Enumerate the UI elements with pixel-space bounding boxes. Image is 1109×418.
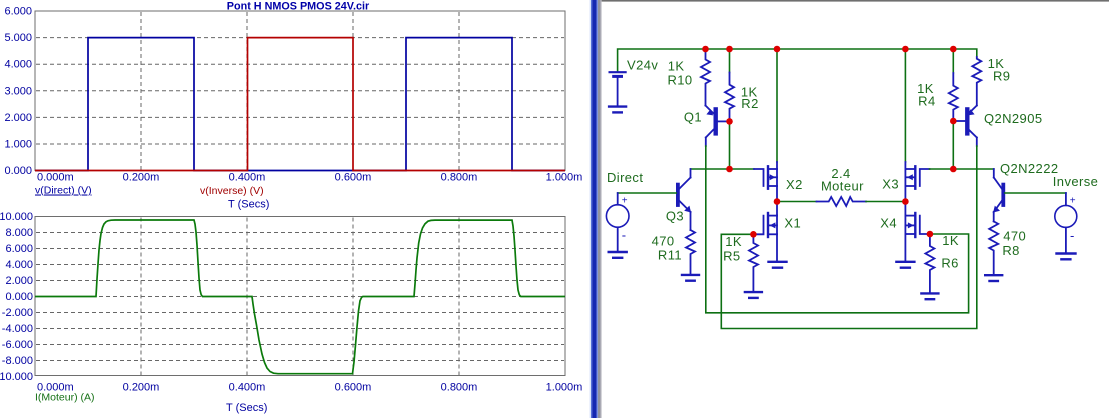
label X2 bbox=[786, 177, 803, 192]
transistor Q3 (NPN) bbox=[678, 169, 691, 230]
label Q2N2905 bbox=[984, 111, 1042, 126]
svg-text:R11: R11 bbox=[658, 248, 682, 263]
mosfet X2 (PMOS) bbox=[754, 162, 777, 202]
svg-text:0.400m: 0.400m bbox=[229, 382, 266, 394]
ground (Inverse source) bbox=[1057, 254, 1076, 260]
svg-text:X1: X1 bbox=[784, 216, 801, 231]
v(Direct) blue trace bbox=[35, 38, 565, 171]
label R9 bbox=[993, 69, 1010, 84]
label Q1 bbox=[684, 110, 702, 125]
svg-text:0.400m: 0.400m bbox=[229, 172, 266, 184]
svg-text:Moteur: Moteur bbox=[821, 178, 864, 193]
label R10 bbox=[667, 73, 692, 88]
resistor R8 bbox=[989, 221, 998, 274]
bottom plot x labels bbox=[37, 382, 582, 394]
resistor R2 bbox=[725, 49, 734, 121]
wire Direct source to Q3 base bbox=[618, 192, 677, 194]
svg-text:4.000: 4.000 bbox=[5, 259, 33, 271]
svg-text:R2: R2 bbox=[741, 96, 758, 111]
resistor R9 bbox=[972, 57, 981, 106]
resistor R5 bbox=[749, 234, 758, 291]
mosfet X3 (PMOS) bbox=[905, 162, 929, 202]
node rail-X2 bbox=[774, 46, 781, 53]
label R2 bbox=[741, 96, 758, 111]
ground (R8) bbox=[985, 275, 1002, 281]
ground (R5) bbox=[745, 292, 762, 298]
svg-text:T (Secs): T (Secs) bbox=[226, 402, 267, 414]
wire cross-couple A: Q1 collector to X4 gate bbox=[706, 146, 969, 313]
svg-text:1.000m: 1.000m bbox=[546, 172, 583, 184]
source Direct bbox=[606, 193, 629, 251]
svg-text:-2.000: -2.000 bbox=[2, 307, 33, 319]
svg-text:R9: R9 bbox=[993, 69, 1010, 84]
ground (R11) bbox=[682, 275, 699, 281]
node rail-R4 bbox=[950, 46, 957, 53]
svg-text:v(Direct) (V): v(Direct) (V) bbox=[35, 185, 92, 197]
I(Moteur) green trace bbox=[35, 220, 565, 374]
resistor R11 bbox=[686, 230, 695, 274]
svg-text:4.000: 4.000 bbox=[4, 59, 32, 71]
transistor Q2N2905 (PNP) bbox=[953, 106, 977, 147]
node right driver bbox=[950, 166, 957, 173]
label X4 bbox=[880, 216, 897, 231]
wire motor node left bbox=[777, 201, 817, 203]
svg-text:R5: R5 bbox=[723, 249, 740, 264]
top plot h gridlines bbox=[36, 38, 564, 144]
svg-text:-4.000: -4.000 bbox=[2, 323, 33, 335]
label R4 bbox=[918, 94, 935, 109]
svg-text:0.600m: 0.600m bbox=[335, 172, 372, 184]
svg-text:V24v: V24v bbox=[627, 58, 658, 73]
label Q2N2222 bbox=[1000, 161, 1058, 176]
svg-text:0.200m: 0.200m bbox=[123, 172, 160, 184]
source Inverse bbox=[1055, 193, 1077, 252]
label Q3 bbox=[666, 209, 684, 224]
svg-text:470: 470 bbox=[652, 234, 675, 249]
svg-text:Q2N2222: Q2N2222 bbox=[1000, 161, 1058, 176]
label 1K (R6) bbox=[942, 233, 959, 248]
svg-text:0.800m: 0.800m bbox=[441, 172, 478, 184]
svg-text:T (Secs): T (Secs) bbox=[228, 199, 269, 211]
node motor right bbox=[902, 198, 909, 205]
svg-text:1.000m: 1.000m bbox=[546, 382, 583, 394]
wire Q2N2905 base to driver node bbox=[952, 121, 954, 169]
svg-text:-: - bbox=[1070, 228, 1075, 243]
bottom plot frame bbox=[35, 217, 565, 376]
label R8 bbox=[1002, 243, 1019, 258]
resistor Moteur 2.4 bbox=[817, 197, 867, 206]
label Direct bbox=[607, 170, 643, 185]
mosfet X4 (NMOS) bbox=[905, 202, 930, 262]
wire X2 drain from rail bbox=[776, 49, 778, 162]
wire left driver node horizontal bbox=[691, 168, 755, 170]
svg-text:0.800m: 0.800m bbox=[441, 382, 478, 394]
svg-text:+: + bbox=[622, 195, 628, 206]
label Inverse bbox=[1053, 174, 1098, 189]
node left driver bbox=[726, 166, 733, 173]
node X1 gate bbox=[750, 231, 757, 238]
resistor R6 bbox=[925, 234, 934, 293]
ground (Direct source) bbox=[609, 252, 627, 258]
svg-text:-8.000: -8.000 bbox=[2, 355, 33, 367]
svg-text:2.000: 2.000 bbox=[5, 275, 33, 287]
svg-text:1K: 1K bbox=[942, 233, 959, 248]
label R5 bbox=[723, 249, 740, 264]
v(Inverse) red trace bbox=[35, 38, 565, 171]
wire Q1 base to driver node bbox=[729, 121, 731, 169]
svg-text:X3: X3 bbox=[882, 177, 899, 192]
transistor Q1 (PNP) bbox=[706, 106, 730, 147]
ground (R6) bbox=[921, 293, 938, 299]
wire Inverse source to Q2N2222 base bbox=[1005, 192, 1066, 194]
node X4 gate bbox=[927, 231, 934, 238]
wire right driver node horizontal bbox=[930, 168, 994, 170]
label V24v bbox=[627, 58, 658, 73]
svg-text:R10: R10 bbox=[667, 73, 692, 88]
svg-text:Q1: Q1 bbox=[684, 110, 702, 125]
svg-text:Q3: Q3 bbox=[666, 209, 684, 224]
svg-text:R4: R4 bbox=[918, 94, 935, 109]
svg-text:10.000: 10.000 bbox=[0, 211, 33, 223]
label 1K (R10) bbox=[668, 59, 685, 74]
svg-text:5.000: 5.000 bbox=[4, 32, 32, 44]
top plot y labels bbox=[4, 6, 32, 178]
transistor Q2N2222 (NPN) bbox=[993, 169, 1003, 221]
node rail-X3 bbox=[902, 46, 909, 53]
wire cross-couple B: Q2N2905 collector to X1 gate bbox=[721, 146, 977, 329]
node junction dots bbox=[702, 46, 956, 238]
svg-text:X4: X4 bbox=[880, 216, 897, 231]
svg-text:0.600m: 0.600m bbox=[335, 382, 372, 394]
label X1 bbox=[784, 216, 801, 231]
svg-text:0.000m: 0.000m bbox=[37, 172, 74, 184]
svg-text:I(Moteur) (A): I(Moteur) (A) bbox=[35, 392, 95, 404]
ground (X4 source) bbox=[896, 262, 914, 268]
ground (battery) bbox=[609, 107, 626, 113]
svg-text:10.000: 10.000 bbox=[0, 371, 33, 383]
label 470 (R11) bbox=[652, 234, 675, 249]
svg-text:3.000: 3.000 bbox=[4, 85, 32, 97]
wire top supply rail bbox=[618, 49, 977, 71]
label R11 bbox=[658, 248, 682, 263]
label 1K (R5) bbox=[725, 234, 742, 249]
node Q1 base bbox=[726, 118, 733, 125]
svg-text:1K: 1K bbox=[725, 234, 742, 249]
node rail-R2 bbox=[726, 46, 733, 53]
svg-text:0.200m: 0.200m bbox=[123, 382, 160, 394]
svg-text:0.000: 0.000 bbox=[4, 165, 32, 177]
svg-text:-6.000: -6.000 bbox=[2, 339, 33, 351]
top plot v gridlines bbox=[141, 12, 459, 170]
label Moteur bbox=[821, 178, 864, 193]
svg-text:v(Inverse) (V): v(Inverse) (V) bbox=[200, 185, 264, 197]
svg-text:470: 470 bbox=[1003, 229, 1026, 244]
bottom plot y labels bbox=[0, 211, 33, 383]
node motor left bbox=[774, 198, 781, 205]
resistor R10 bbox=[701, 49, 710, 106]
svg-text:Direct: Direct bbox=[607, 170, 643, 185]
svg-text:2.000: 2.000 bbox=[4, 112, 32, 124]
svg-text:Inverse: Inverse bbox=[1053, 174, 1098, 189]
svg-text:0.000: 0.000 bbox=[5, 291, 33, 303]
label 1K (R2) bbox=[741, 85, 758, 100]
svg-text:+: + bbox=[1070, 195, 1076, 206]
svg-text:8.000: 8.000 bbox=[5, 227, 33, 239]
top plot frame bbox=[35, 11, 565, 171]
svg-text:6.000: 6.000 bbox=[4, 6, 32, 18]
node Q2N2905 base bbox=[950, 118, 957, 125]
label 1K (R4) bbox=[917, 81, 934, 96]
label 2.4 bbox=[831, 166, 850, 181]
node rail-R10 bbox=[702, 46, 709, 53]
top plot x labels bbox=[37, 172, 582, 184]
svg-text:R8: R8 bbox=[1002, 243, 1019, 258]
bottom plot v gridlines bbox=[141, 218, 459, 376]
svg-text:R6: R6 bbox=[941, 256, 958, 271]
label X3 bbox=[882, 177, 899, 192]
svg-text:Q2N2905: Q2N2905 bbox=[984, 111, 1042, 126]
svg-text:6.000: 6.000 bbox=[5, 243, 33, 255]
label 1K (R9) bbox=[988, 56, 1005, 71]
mosfet X1 (NMOS) bbox=[753, 202, 777, 262]
resistor R4 bbox=[949, 49, 958, 121]
svg-text:-: - bbox=[622, 228, 627, 243]
wire motor node right bbox=[866, 201, 905, 203]
battery V24v bbox=[610, 72, 626, 105]
bottom plot h gridlines bbox=[36, 233, 564, 361]
label 470 (R8) bbox=[1003, 229, 1026, 244]
wire X3 drain from rail bbox=[904, 49, 906, 162]
svg-text:1K: 1K bbox=[668, 59, 685, 74]
svg-text:X2: X2 bbox=[786, 177, 803, 192]
svg-text:1.000: 1.000 bbox=[4, 139, 32, 151]
ground (X1 source) bbox=[769, 262, 787, 268]
label R6 bbox=[941, 256, 958, 271]
